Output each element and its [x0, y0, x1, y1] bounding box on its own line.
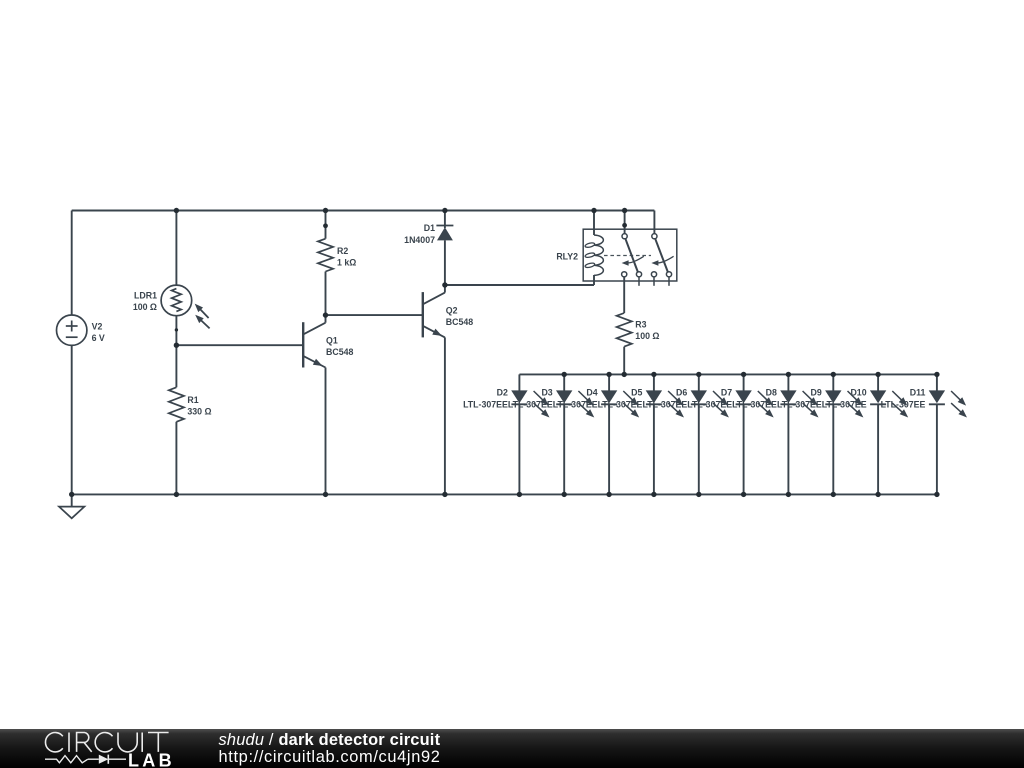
svg-text:1 kΩ: 1 kΩ: [337, 258, 356, 268]
svg-text:LTL-307EE: LTL-307EE: [463, 399, 508, 409]
svg-text:D8: D8: [766, 388, 777, 398]
svg-text:LTL-307EE: LTL-307EE: [732, 399, 777, 409]
svg-text:D1: D1: [424, 223, 435, 233]
svg-text:D9: D9: [811, 388, 822, 398]
svg-text:R1: R1: [187, 395, 198, 405]
svg-text:D5: D5: [631, 388, 642, 398]
svg-text:D6: D6: [676, 388, 687, 398]
svg-text:LTL-307EE: LTL-307EE: [881, 399, 926, 409]
svg-text:R2: R2: [337, 246, 348, 256]
svg-text:D4: D4: [586, 388, 597, 398]
svg-text:LDR1: LDR1: [134, 290, 157, 300]
svg-text:LTL-307EE: LTL-307EE: [598, 399, 643, 409]
svg-text:330 Ω: 330 Ω: [187, 407, 211, 417]
svg-text:Q2: Q2: [446, 306, 458, 316]
svg-text:RLY2: RLY2: [556, 252, 578, 262]
svg-text:LTL-307EE: LTL-307EE: [687, 399, 732, 409]
svg-text:http://circuitlab.com/cu4jn92: http://circuitlab.com/cu4jn92: [219, 748, 441, 766]
svg-text:D10: D10: [850, 388, 866, 398]
svg-text:Q1: Q1: [326, 336, 338, 346]
svg-text:LTL-307EE: LTL-307EE: [553, 399, 598, 409]
svg-text:V2: V2: [92, 321, 103, 331]
svg-text:100 Ω: 100 Ω: [635, 331, 659, 341]
svg-text:LTL-307EE: LTL-307EE: [822, 399, 867, 409]
svg-text:LAB: LAB: [128, 751, 175, 768]
svg-text:shudu / dark detector circuit: shudu / dark detector circuit: [219, 731, 441, 749]
svg-text:1N4007: 1N4007: [404, 235, 435, 245]
svg-text:LTL-307EE: LTL-307EE: [777, 399, 822, 409]
svg-text:D7: D7: [721, 388, 732, 398]
svg-text:BC548: BC548: [326, 347, 353, 357]
svg-text:BC548: BC548: [446, 317, 473, 327]
svg-text:LTL-307EE: LTL-307EE: [642, 399, 687, 409]
svg-text:D11: D11: [910, 388, 926, 398]
svg-text:100 Ω: 100 Ω: [133, 302, 157, 312]
svg-text:LTL-307EE: LTL-307EE: [508, 399, 553, 409]
svg-text:6 V: 6 V: [92, 333, 105, 343]
svg-text:R3: R3: [635, 319, 646, 329]
svg-text:D3: D3: [541, 388, 552, 398]
svg-text:D2: D2: [497, 388, 508, 398]
